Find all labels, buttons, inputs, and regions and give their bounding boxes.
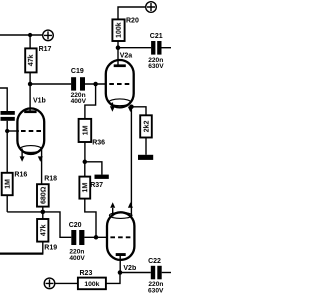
svg-text:V1b: V1b [33, 98, 46, 105]
wire: anode node to C19 [30, 83, 71, 85]
resistor R20 [112, 19, 124, 41]
resistor R17 [25, 48, 36, 72]
wire: R36 bottom lead [84, 142, 86, 162]
tube V1b [17, 108, 44, 161]
wire: V1b cathode lead to R18 [41, 148, 43, 185]
svg-text:1M: 1M [5, 179, 12, 189]
grid dashes V1b [21, 130, 42, 132]
wire: R18 bottom lead [42, 207, 44, 212]
node: R17 top junction [28, 33, 32, 37]
resistor R19 [37, 219, 48, 242]
wire: C22 to right edge [162, 272, 171, 274]
svg-text:R23: R23 [80, 270, 93, 277]
svg-text:100k: 100k [84, 281, 99, 288]
svg-text:2k2: 2k2 [144, 120, 151, 132]
wire: R37 bottom step to V2b grid node [85, 199, 96, 238]
wire: R19 top lead [42, 212, 44, 219]
svg-text:R37: R37 [90, 182, 103, 189]
node: V2a grid / R36 junction [93, 82, 98, 87]
heater stub arrow left V1b [21, 149, 23, 157]
heater stub arrow left V2b [112, 208, 114, 217]
envelope V2a [106, 60, 134, 107]
envelope V1b [17, 108, 44, 154]
svg-text:R36: R36 [92, 140, 105, 147]
svg-text:C20: C20 [69, 222, 82, 229]
capacitor C20 [71, 230, 84, 245]
svg-text:R16: R16 [14, 171, 27, 178]
cathode lead arrow right V2b [128, 202, 133, 207]
wire: anode node to C22 [120, 272, 151, 274]
ground (R36/R37 node) [95, 175, 109, 179]
wire: V2b anode lead [119, 256, 121, 273]
wire: input from left edge [0, 88, 7, 111]
resistor R16 [2, 173, 13, 195]
wire: anode node down to R23 [106, 273, 120, 284]
wire: anode node to C21 [118, 47, 151, 49]
cathode arc V2b [109, 212, 132, 218]
svg-text:1M: 1M [82, 125, 89, 135]
wire: R20 top lead to supply [118, 7, 145, 19]
svg-text:R17: R17 [39, 46, 52, 53]
heater stub arrow left V2a [111, 103, 113, 107]
wire: V1b anode lead [29, 84, 31, 111]
node: V1b grid junction [5, 129, 9, 133]
wire: bottom-left rail [0, 253, 43, 255]
svg-text:400V: 400V [71, 98, 87, 105]
node: V2b anode junction [118, 270, 123, 275]
svg-text:100k: 100k [116, 22, 123, 38]
svg-text:47k: 47k [40, 224, 47, 236]
wire: C20 to V2b grid [84, 236, 107, 238]
svg-text:R18: R18 [44, 175, 57, 182]
svg-text:C19: C19 [71, 68, 84, 75]
power symbol + (top right) [146, 2, 157, 13]
ground (2k2) [138, 155, 153, 160]
wire: junction row to C20 corner [7, 212, 71, 237]
capacitor C22 [151, 266, 162, 280]
cathode lead arrow right V2a [128, 107, 133, 112]
svg-text:R20: R20 [126, 18, 139, 25]
capacitor (input, cropped at edge) [1, 111, 15, 121]
wire: top-left supply rail [0, 34, 42, 36]
wire: R19 bottom lead [42, 242, 44, 254]
wire: C21 to right edge [162, 47, 172, 49]
svg-text:47k: 47k [28, 54, 35, 66]
grid dashes V2b [110, 236, 131, 238]
wire: input cap to grid node [6, 121, 8, 131]
svg-text:C21: C21 [150, 33, 163, 40]
svg-text:400V: 400V [69, 255, 85, 262]
cathode arc V2a [109, 99, 131, 106]
svg-text:V2b: V2b [123, 265, 136, 272]
anode bar V2b [116, 253, 126, 256]
power symbol + (bottom) [44, 278, 55, 289]
node: R18/R19/R16 junction [41, 210, 46, 215]
svg-text:1M: 1M [82, 183, 89, 193]
cathode lead arrow right V1b [38, 156, 43, 161]
svg-text:630V: 630V [148, 63, 164, 70]
cathode arc V1b [20, 146, 41, 153]
wire: 2k2 bottom lead [145, 138, 147, 155]
svg-text:V2a: V2a [120, 53, 133, 60]
anode bar V2a [114, 64, 126, 67]
resistor R23 [78, 278, 106, 290]
wire: R20 bottom lead [117, 41, 119, 48]
wire: grid node step down to R36 [85, 84, 96, 119]
node: V2a cathode junction [129, 105, 134, 110]
tube V2a [106, 60, 134, 112]
wire: R17 bottom lead [29, 72, 31, 84]
envelope V2b [107, 212, 134, 260]
wire: cathode node to 2k2 [131, 107, 146, 116]
tube V2b (inverted) [107, 202, 134, 260]
capacitor C19 [71, 77, 85, 90]
svg-text:680Ω: 680Ω [40, 186, 47, 204]
node: R36/R37/ground junction [83, 160, 88, 165]
resistor R37 [79, 177, 90, 199]
wire: R16 top lead [6, 131, 8, 173]
resistor R36 [79, 119, 92, 142]
svg-text:C22: C22 [148, 258, 161, 265]
node: V2b grid junction [94, 235, 99, 240]
wire: V2a anode lead [117, 48, 119, 65]
capacitor C21 [151, 41, 161, 55]
resistor R18 [37, 184, 49, 206]
wire: V2a cathode to V2b cathode (long lead) [130, 107, 132, 217]
node: V2a anode junction [116, 45, 121, 50]
wire: C19 to V2a grid [85, 83, 107, 85]
svg-text:R19: R19 [44, 245, 57, 252]
resistor 2k2 [140, 115, 152, 137]
wire: R16 bottom lead [6, 195, 8, 212]
wire: V1b grid lead [7, 130, 19, 132]
svg-text:630V: 630V [148, 287, 164, 294]
grid dashes V2a [109, 83, 130, 85]
wire: R23 to power symbol [55, 282, 78, 284]
wire: junction to ground stem [85, 162, 102, 175]
wire: R37 top lead [84, 162, 86, 177]
wire: R17 top lead [29, 35, 31, 48]
anode bar V1b [24, 110, 36, 113]
node: V1b anode junction [28, 82, 32, 87]
power symbol + (top left) [43, 30, 54, 41]
